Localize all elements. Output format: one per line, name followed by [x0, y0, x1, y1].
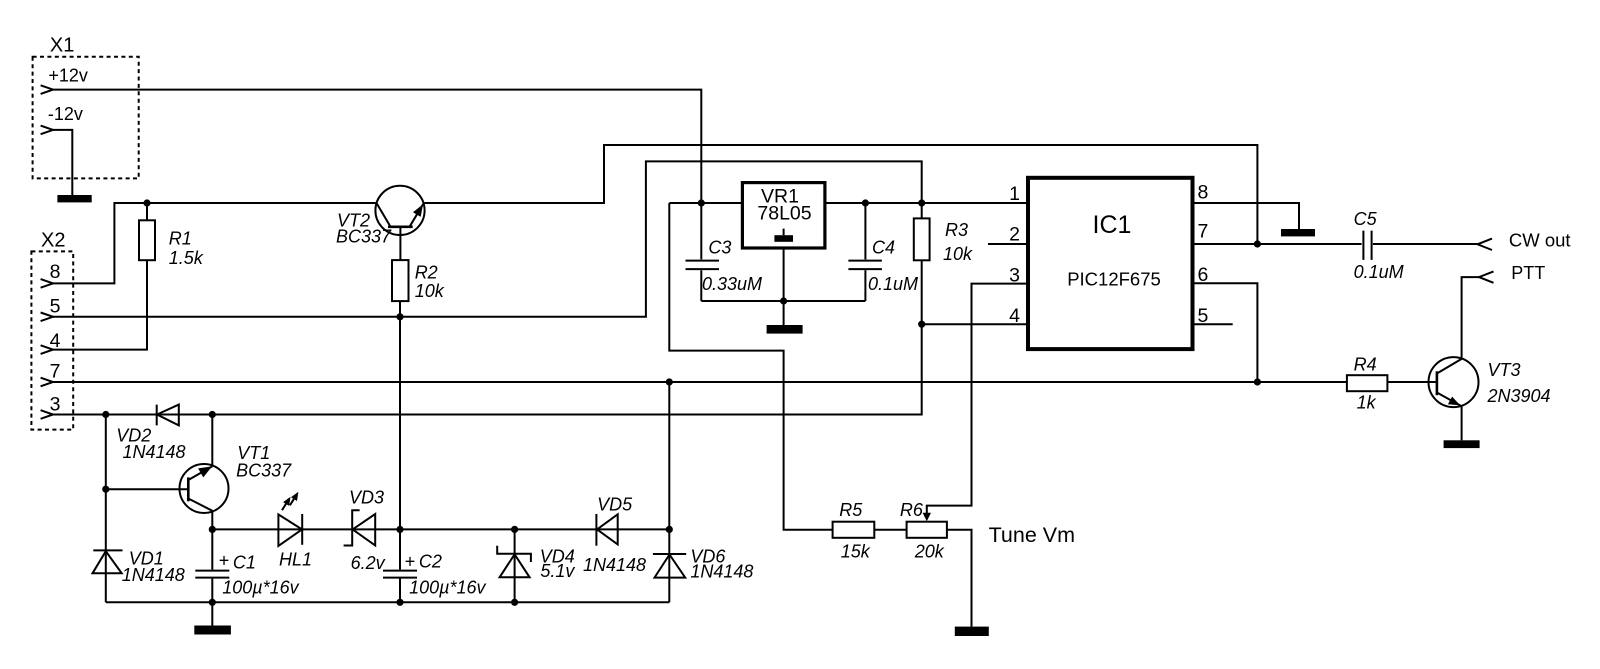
wire VR1 output line to IC1 pin 1 — [825, 202, 1028, 204]
wire IC1 pin 2 stub — [988, 243, 1028, 245]
svg-text:BC337: BC337 — [336, 227, 392, 247]
node R1 top junction — [143, 199, 150, 206]
wire R4 to VT3 base — [1387, 381, 1437, 383]
CW out chevron — [1478, 239, 1493, 250]
C4 plates — [848, 261, 882, 270]
svg-text:VT3: VT3 — [1488, 360, 1521, 380]
node VD4 bottom on rail — [511, 599, 518, 606]
node R3 bottom / IC1 pin 4 junction — [918, 321, 925, 328]
svg-text:C1: C1 — [233, 553, 256, 573]
capacitor C5 plates — [1363, 231, 1371, 260]
svg-text:X2: X2 — [41, 230, 65, 252]
svg-text:1.5k: 1.5k — [169, 248, 204, 268]
diode VD2 cathode bar — [156, 405, 158, 426]
node bus / VD6 junction — [666, 378, 673, 385]
wire VT1 base — [106, 488, 189, 490]
wire LED line from VT1 to VD6 column — [212, 528, 669, 530]
resistor R3 bottom lead — [921, 260, 923, 324]
node +12v / VR1 input junction — [698, 199, 705, 206]
svg-text:78L05: 78L05 — [757, 203, 811, 225]
potentiometer R6 body — [907, 522, 947, 538]
wire X2 pin 3 line to R3 bottom node — [53, 324, 922, 414]
svg-text:5: 5 — [50, 296, 61, 318]
svg-text:X1: X1 — [50, 34, 74, 56]
LED HL1 triangle — [278, 514, 302, 546]
transistor VT1 circle — [180, 464, 229, 513]
svg-text:10k: 10k — [415, 281, 445, 301]
svg-text:1N4148: 1N4148 — [122, 565, 185, 585]
ground bar under VR1 — [767, 325, 803, 334]
svg-text:+: + — [405, 552, 416, 572]
svg-text:100µ*16v: 100µ*16v — [409, 578, 486, 598]
svg-text:0.1uM: 0.1uM — [868, 274, 918, 294]
C4 bottom lead — [864, 270, 866, 301]
ground bar at IC1 pin 8 — [1281, 229, 1315, 236]
connector X2 dashed outline — [31, 251, 73, 429]
svg-text:R6: R6 — [900, 500, 924, 520]
VT3 emitter arrowhead — [1448, 397, 1460, 406]
svg-text:BC337: BC337 — [236, 461, 292, 481]
wire IC1 pin 8 stub to ground — [1193, 203, 1300, 229]
svg-text:3: 3 — [1009, 265, 1020, 287]
node VT1 base junction — [102, 486, 109, 493]
svg-text:3: 3 — [50, 393, 61, 415]
diode VD5 triangle — [597, 514, 618, 544]
wire R2 bottom to pin5 line — [399, 301, 401, 317]
svg-text:C3: C3 — [708, 238, 731, 258]
wire C5 to CW out — [1373, 243, 1478, 245]
svg-text:+12v: +12v — [48, 66, 88, 86]
VR1 inner common pin bar — [774, 235, 793, 242]
zener VD3 triangle — [353, 514, 376, 545]
svg-text:HL1: HL1 — [279, 550, 312, 570]
svg-text:20k: 20k — [914, 542, 945, 562]
wire VR1 input left end bypass down and around to R5 — [669, 203, 832, 530]
capacitor C2 plates — [383, 571, 417, 578]
transistor VT3 circle — [1429, 357, 1479, 407]
svg-text:1: 1 — [1009, 183, 1020, 205]
wire X2 pin 4 to R1 bottom — [53, 260, 147, 349]
diode VD1 triangle — [93, 551, 122, 573]
svg-text:100µ*16v: 100µ*16v — [222, 578, 299, 598]
svg-text:8: 8 — [1198, 182, 1209, 204]
resistor R5 body — [833, 522, 875, 538]
node R3 top junction — [918, 199, 925, 206]
wire IC1 pin 5 stub — [1193, 323, 1233, 325]
svg-text:8: 8 — [50, 261, 61, 283]
wire +12v net from X1 to VR1 input node — [53, 90, 701, 203]
svg-text:5.1v: 5.1v — [540, 561, 575, 581]
svg-text:VD5: VD5 — [597, 495, 633, 515]
C3 bottom lead — [700, 270, 702, 301]
VT2 emitter diagonal — [410, 204, 424, 227]
svg-text:R4: R4 — [1354, 354, 1377, 374]
wire -12v to ground — [53, 130, 72, 195]
node LED line / R2 column junction — [396, 526, 403, 533]
node C4 top junction — [862, 199, 869, 206]
node R2 bottom junction — [396, 313, 403, 320]
resistor R3 body — [914, 218, 930, 260]
svg-text:2N3904: 2N3904 — [1487, 386, 1551, 406]
HL1 arrowhead 2 — [291, 492, 298, 501]
ground bar under C1 — [194, 626, 231, 635]
VR1 inner common pin stub — [783, 229, 785, 236]
svg-text:1N4148: 1N4148 — [690, 561, 753, 581]
VT2 collector diagonal — [377, 203, 391, 227]
X2 pin 5 chevron — [41, 313, 53, 322]
transistor VT2 circle — [375, 186, 424, 235]
VT3 base bar — [1436, 371, 1439, 395]
zener VD4 bar with ticks — [497, 546, 531, 562]
VT1 collector arrowhead — [198, 466, 212, 477]
svg-text:2: 2 — [1009, 224, 1020, 246]
capacitor C4 top lead — [864, 203, 866, 259]
wire X2 pin 7 bus to R4 — [53, 381, 1347, 383]
diode VD6 triangle — [655, 555, 686, 578]
svg-text:CW out: CW out — [1509, 229, 1571, 250]
VT1 base bar — [187, 477, 190, 501]
svg-text:1N4148: 1N4148 — [583, 555, 646, 575]
wire IC1 pin 3 stub down to R6 wiper — [927, 284, 1028, 514]
svg-text:C4: C4 — [872, 238, 895, 258]
svg-text:-12v: -12v — [48, 104, 83, 124]
wire C3-C4 common ground line — [701, 300, 865, 302]
svg-text:VD3: VD3 — [349, 488, 384, 508]
C3 plates — [686, 261, 720, 270]
HL1 arrowhead 1 — [283, 497, 290, 506]
wire VD6 column — [668, 529, 670, 602]
VT2 emitter arrowhead — [413, 204, 423, 217]
node VD5 right / VD6 top junction — [666, 526, 673, 533]
resistor R1 top lead — [146, 203, 148, 220]
wire VD1 column from pin3 line down through VD1 to rail — [105, 415, 107, 603]
svg-text:0.33uM: 0.33uM — [702, 274, 762, 294]
svg-text:PIC12F675: PIC12F675 — [1067, 269, 1161, 290]
resistor R3 top lead — [921, 203, 923, 218]
wire X2 pin 8 up to R1 top rail — [53, 203, 377, 283]
svg-text:4: 4 — [1009, 305, 1020, 327]
diode VD6 cathode bar — [653, 553, 686, 555]
wire R2 junction down to LED line and C2 — [399, 317, 401, 570]
R6 wiper arrowhead — [923, 513, 931, 522]
VT3 collector diagonal — [1437, 359, 1462, 374]
wire IC1 pin 4 stub — [922, 323, 1028, 325]
wire PTT to VT3 collector — [1462, 277, 1479, 359]
capacitor C3 top lead — [700, 203, 702, 259]
zener VD3 bar with ticks — [344, 510, 360, 545]
wire VT2 emitter to top rail over IC1 down to pin 7 node — [424, 145, 1257, 244]
diode VD1 cathode bar — [93, 549, 122, 551]
wire X2 pin 5 to R2 bottom then up and over to VR1 output node — [53, 161, 922, 316]
wire VR1 input line — [669, 202, 742, 204]
svg-text:R1: R1 — [169, 228, 192, 248]
wire VT1 emitter down to LED line — [211, 511, 213, 530]
VT1 collector diagonal — [188, 466, 212, 480]
svg-text:R5: R5 — [839, 500, 863, 520]
VT2 base bar — [388, 226, 413, 229]
ground bar under X1 — [57, 195, 91, 202]
wire bus down to VD5/VD6 node — [668, 382, 670, 529]
X1 pin -12v chevron — [41, 126, 53, 135]
wire IC1 pin 7 stub to C5 — [1193, 243, 1362, 245]
X2 pin 3 chevron — [41, 410, 53, 419]
HL1 emission arrow 1 — [282, 503, 286, 510]
wire VT1 collector from pin3 line — [211, 415, 213, 466]
X1 pin +12v chevron — [41, 85, 53, 94]
ground stub under C1 — [211, 602, 213, 625]
wire VD4 column — [514, 529, 516, 602]
resistor R1 body — [139, 220, 155, 260]
resistor R2 body — [392, 260, 409, 301]
C1 bottom lead — [211, 579, 213, 603]
node X2 pin3 / VD1 junction — [102, 411, 109, 418]
regulator VR1 box — [742, 183, 825, 248]
svg-text:IC1: IC1 — [1093, 211, 1132, 239]
bottom rail from VD1 to VD6 — [106, 601, 670, 603]
node VD2 right / VT1 collector junction — [209, 411, 216, 418]
svg-text:Tune Vm: Tune Vm — [989, 523, 1075, 547]
chip IC1 box — [1028, 178, 1193, 349]
ground bar under R6 — [955, 627, 989, 636]
svg-text:0.1uM: 0.1uM — [1354, 262, 1404, 282]
svg-text:7: 7 — [1198, 221, 1209, 243]
connector X1 dashed outline — [33, 57, 139, 179]
ground bar under VT3 — [1444, 440, 1480, 448]
node pin 7 junction — [1254, 240, 1261, 247]
C2 bottom lead — [399, 579, 401, 603]
wire R6 right to ground — [947, 530, 972, 627]
node pin 6 / bus junction — [1254, 378, 1261, 385]
svg-text:R2: R2 — [415, 263, 438, 283]
VT1 emitter diagonal — [188, 499, 212, 511]
node VT1 emitter / C1 / HL1 junction — [209, 526, 216, 533]
X2 pin 4 chevron — [41, 345, 53, 354]
X2 pin 7 chevron — [41, 378, 53, 387]
wire VT2 base down to R2 — [399, 227, 401, 260]
svg-text:7: 7 — [50, 360, 61, 382]
VT3 emitter diagonal — [1437, 393, 1462, 407]
resistor R4 body — [1347, 375, 1388, 391]
HL1 emission arrow 2 — [290, 498, 294, 505]
C1 plates — [195, 571, 229, 578]
svg-text:+: + — [219, 551, 230, 571]
svg-text:1k: 1k — [1357, 393, 1377, 413]
capacitor C1 top lead — [211, 529, 213, 569]
node C2 bottom on rail — [396, 599, 403, 606]
wire VR1 ground stub — [783, 248, 785, 325]
svg-text:10k: 10k — [943, 244, 973, 264]
HL1 cathode bar — [301, 514, 303, 545]
svg-text:1N4148: 1N4148 — [123, 442, 186, 462]
svg-text:6.2v: 6.2v — [351, 553, 386, 573]
svg-text:PTT: PTT — [1511, 263, 1545, 283]
svg-text:C2: C2 — [419, 552, 442, 572]
node VD4 top junction — [511, 526, 518, 533]
PTT chevron — [1479, 271, 1494, 282]
wire IC1 pin 6 stub down to bus — [1193, 283, 1258, 382]
wire R5 to R6 — [874, 529, 906, 531]
wire VT3 emitter to ground — [1461, 406, 1463, 440]
diode VD5 cathode bar — [595, 514, 597, 546]
node C1 bottom on rail — [209, 599, 216, 606]
node VR1 ground junction — [780, 297, 787, 304]
X2 pin 8 chevron — [41, 279, 53, 288]
diode VD2 triangle — [157, 405, 179, 426]
svg-text:R3: R3 — [945, 220, 968, 240]
svg-text:C5: C5 — [1354, 209, 1378, 229]
zener VD4 triangle — [500, 554, 530, 577]
svg-text:15k: 15k — [841, 542, 871, 562]
